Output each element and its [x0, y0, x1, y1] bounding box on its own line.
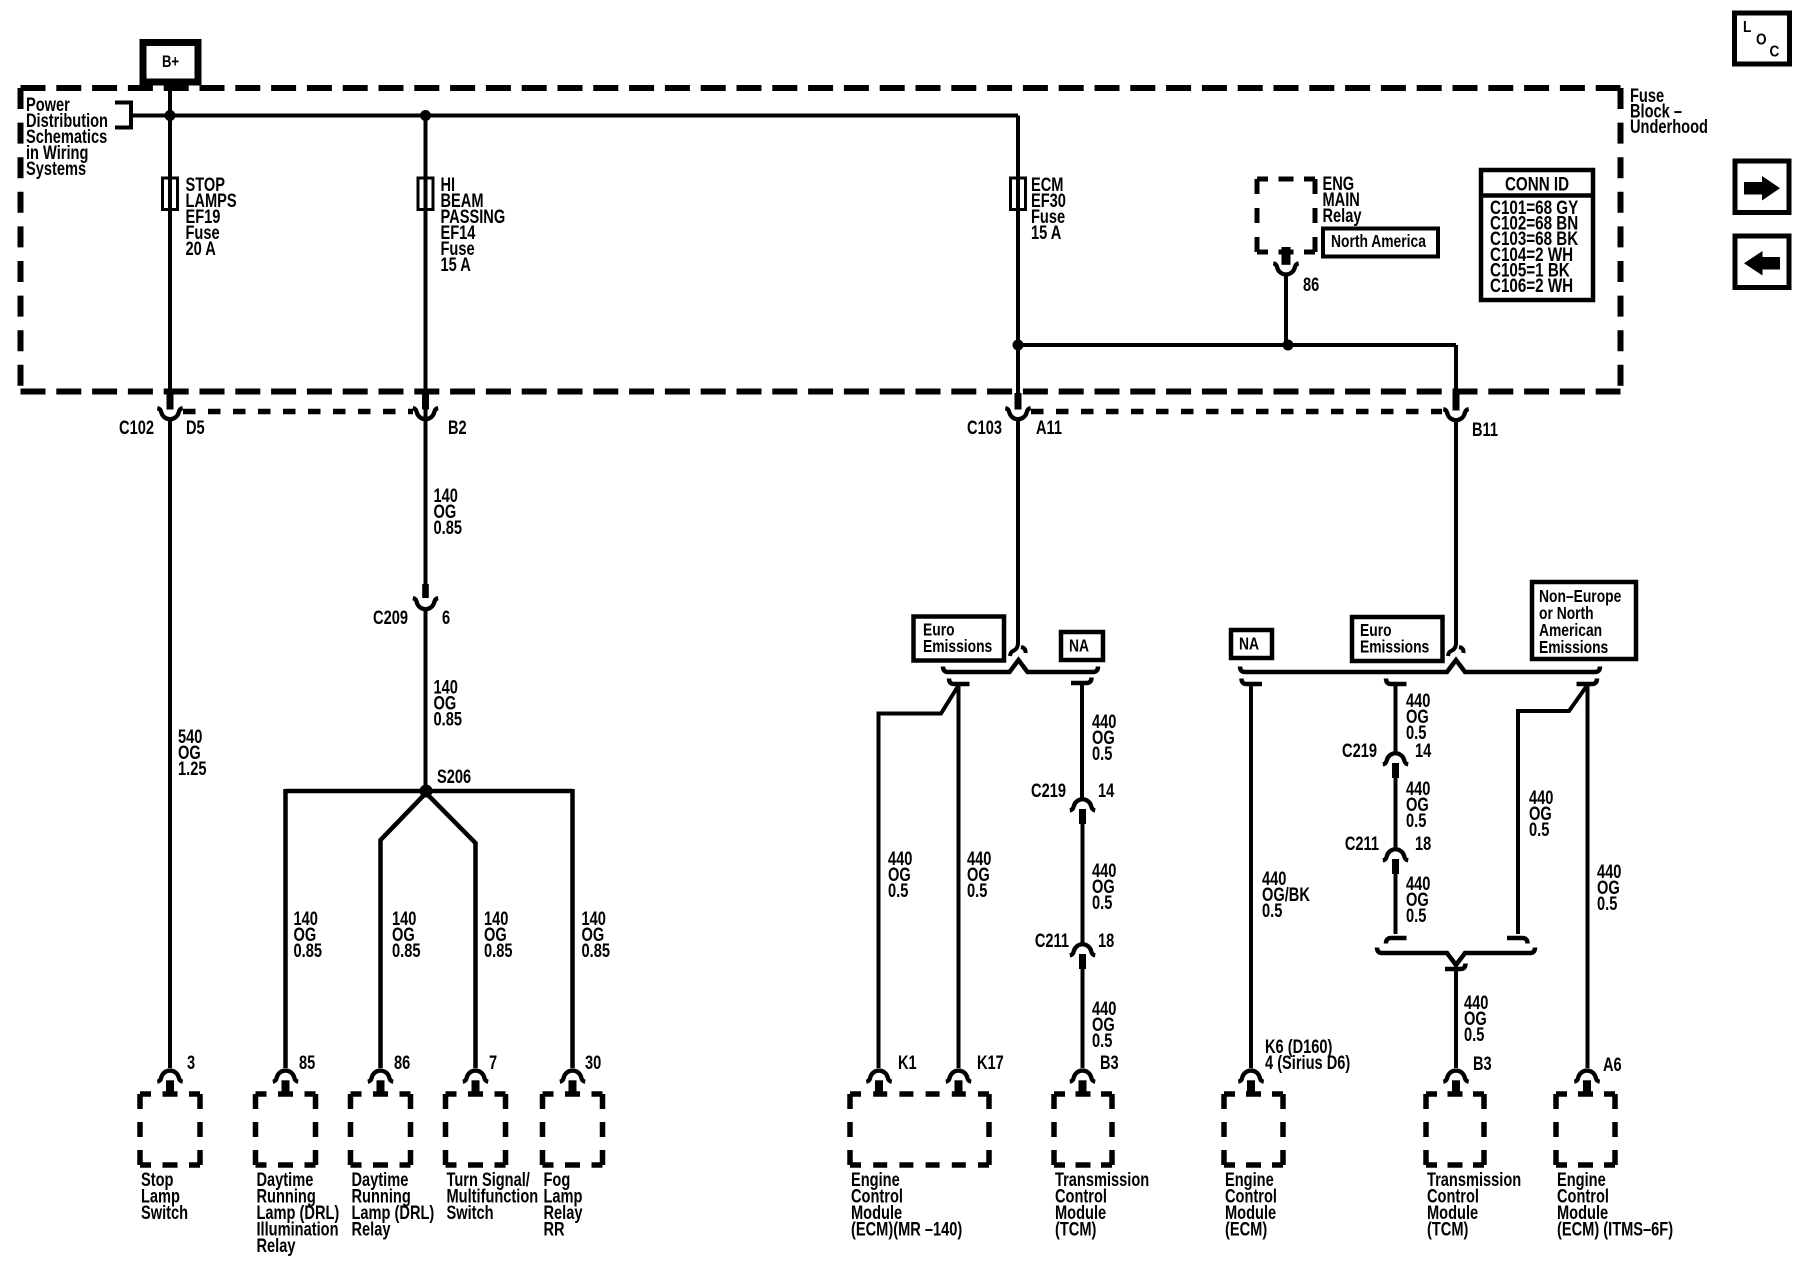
- svg-text:85: 85: [299, 1052, 315, 1073]
- svg-text:0.5: 0.5: [1529, 819, 1549, 840]
- svg-text:K17: K17: [977, 1052, 1004, 1073]
- svg-text:C211: C211: [1035, 930, 1069, 951]
- svg-text:86: 86: [394, 1052, 410, 1073]
- svg-text:18: 18: [1415, 833, 1431, 854]
- svg-text:(TCM): (TCM): [1055, 1219, 1096, 1240]
- svg-text:C: C: [1770, 44, 1780, 61]
- svg-text:18: 18: [1098, 930, 1114, 951]
- svg-text:Relay: Relay: [1323, 205, 1362, 226]
- svg-text:C103: C103: [967, 417, 1002, 438]
- svg-text:0.85: 0.85: [434, 709, 462, 730]
- svg-text:Relay: Relay: [257, 1235, 296, 1256]
- svg-text:S206: S206: [437, 766, 471, 787]
- svg-text:B3: B3: [1100, 1052, 1119, 1073]
- svg-text:A11: A11: [1036, 417, 1062, 438]
- svg-text:C219: C219: [1031, 780, 1066, 801]
- svg-text:B3: B3: [1473, 1053, 1492, 1074]
- svg-text:CONN ID: CONN ID: [1505, 173, 1569, 195]
- svg-text:86: 86: [1303, 274, 1319, 295]
- svg-text:O: O: [1756, 32, 1767, 49]
- svg-text:6: 6: [442, 607, 450, 628]
- svg-text:RR: RR: [544, 1219, 565, 1240]
- svg-text:20 A: 20 A: [186, 238, 216, 259]
- svg-text:C211: C211: [1345, 833, 1379, 854]
- svg-text:Relay: Relay: [352, 1219, 391, 1240]
- svg-text:B+: B+: [162, 52, 179, 71]
- svg-text:(ECM)(MR –140): (ECM)(MR –140): [851, 1219, 962, 1240]
- svg-text:Switch: Switch: [447, 1202, 494, 1223]
- svg-text:(ECM) (ITMS–6F): (ECM) (ITMS–6F): [1557, 1219, 1673, 1240]
- svg-text:15 A: 15 A: [441, 254, 471, 275]
- svg-text:0.5: 0.5: [1092, 743, 1112, 764]
- svg-text:0.5: 0.5: [1092, 1030, 1112, 1051]
- svg-text:Underhood: Underhood: [1630, 116, 1708, 137]
- svg-text:Systems: Systems: [26, 158, 86, 179]
- svg-text:Emissions: Emissions: [923, 636, 992, 656]
- svg-text:1.25: 1.25: [178, 758, 206, 779]
- svg-text:7: 7: [489, 1052, 497, 1073]
- svg-text:0.85: 0.85: [294, 940, 322, 961]
- svg-text:NA: NA: [1069, 636, 1089, 656]
- svg-text:(ECM): (ECM): [1225, 1219, 1267, 1240]
- svg-text:0.5: 0.5: [1406, 810, 1426, 831]
- svg-text:0.5: 0.5: [1597, 893, 1617, 914]
- svg-text:B2: B2: [448, 417, 467, 438]
- svg-text:A6: A6: [1603, 1054, 1622, 1075]
- svg-text:14: 14: [1415, 740, 1432, 761]
- svg-text:K1: K1: [898, 1052, 917, 1073]
- svg-text:0.5: 0.5: [888, 880, 908, 901]
- svg-text:0.85: 0.85: [392, 940, 420, 961]
- svg-text:C219: C219: [1342, 740, 1377, 761]
- svg-text:Switch: Switch: [141, 1202, 188, 1223]
- svg-text:0.85: 0.85: [582, 940, 610, 961]
- svg-text:0.5: 0.5: [1262, 900, 1282, 921]
- svg-text:Emissions: Emissions: [1539, 637, 1608, 657]
- svg-text:4 (Sirius D6): 4 (Sirius D6): [1265, 1052, 1350, 1073]
- svg-text:0.85: 0.85: [484, 940, 512, 961]
- svg-text:3: 3: [187, 1052, 195, 1073]
- svg-text:14: 14: [1098, 780, 1115, 801]
- svg-text:D5: D5: [186, 417, 205, 438]
- svg-text:L: L: [1743, 19, 1751, 36]
- svg-text:0.5: 0.5: [1406, 905, 1426, 926]
- svg-text:0.5: 0.5: [1464, 1024, 1484, 1045]
- svg-text:0.5: 0.5: [967, 880, 987, 901]
- svg-text:North America: North America: [1331, 231, 1427, 251]
- svg-text:30: 30: [585, 1052, 601, 1073]
- svg-text:(TCM): (TCM): [1427, 1219, 1468, 1240]
- svg-text:C106=2 WH: C106=2 WH: [1490, 274, 1573, 296]
- svg-text:B11: B11: [1472, 419, 1498, 440]
- svg-text:C209: C209: [373, 607, 408, 628]
- svg-text:15 A: 15 A: [1031, 222, 1061, 243]
- svg-text:NA: NA: [1239, 634, 1259, 654]
- svg-text:C102: C102: [119, 417, 154, 438]
- svg-text:Emissions: Emissions: [1360, 637, 1429, 657]
- svg-text:0.85: 0.85: [434, 517, 462, 538]
- svg-text:0.5: 0.5: [1092, 892, 1112, 913]
